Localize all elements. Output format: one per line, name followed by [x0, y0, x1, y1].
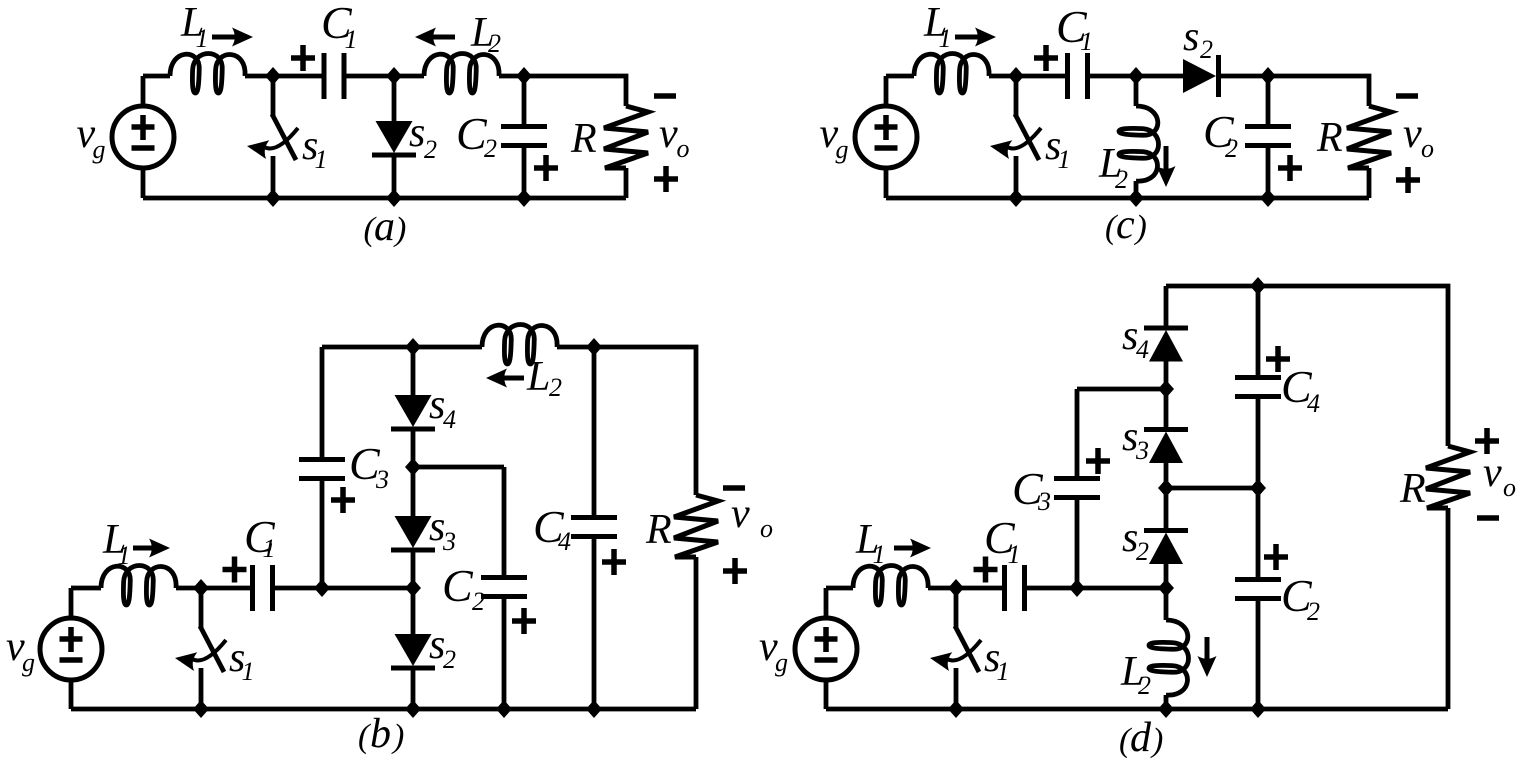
svg-text:L: L — [526, 354, 550, 400]
svg-text:): ) — [1150, 722, 1163, 759]
svg-text:1: 1 — [1008, 540, 1021, 569]
svg-text:2: 2 — [472, 587, 485, 616]
svg-text:4: 4 — [1136, 335, 1149, 364]
svg-text:2: 2 — [484, 134, 497, 163]
svg-text:g: g — [93, 135, 106, 164]
svg-text:1: 1 — [1080, 27, 1093, 56]
svg-text:): ) — [393, 211, 406, 248]
svg-text:o: o — [677, 134, 690, 163]
svg-text:g: g — [775, 648, 788, 677]
svg-text:o: o — [760, 514, 773, 543]
svg-text:1: 1 — [196, 24, 209, 53]
svg-text:C: C — [442, 560, 474, 611]
svg-text:1: 1 — [315, 145, 328, 174]
svg-text:a: a — [374, 204, 395, 250]
svg-text:v: v — [1483, 450, 1502, 496]
svg-text:g: g — [836, 135, 849, 164]
svg-text:1: 1 — [345, 25, 358, 54]
svg-text:3: 3 — [375, 465, 389, 494]
svg-text:1: 1 — [118, 541, 131, 570]
svg-text:c: c — [1116, 202, 1135, 248]
svg-text:2: 2 — [443, 645, 456, 674]
svg-text:2: 2 — [1138, 671, 1151, 700]
svg-text:4: 4 — [1307, 389, 1320, 418]
svg-text:v: v — [659, 111, 678, 157]
svg-text:1: 1 — [873, 540, 886, 569]
svg-text:R: R — [570, 116, 597, 162]
svg-text:1: 1 — [242, 657, 255, 686]
svg-text:1: 1 — [939, 24, 952, 53]
svg-text:): ) — [391, 718, 404, 755]
svg-text:4: 4 — [558, 527, 571, 556]
svg-text:d: d — [1130, 715, 1152, 761]
svg-text:1: 1 — [263, 534, 276, 563]
svg-text:o: o — [1503, 473, 1516, 502]
svg-text:): ) — [1134, 209, 1147, 246]
svg-text:g: g — [22, 648, 35, 677]
svg-text:R: R — [1316, 115, 1343, 161]
svg-text:o: o — [1421, 134, 1434, 163]
svg-text:2: 2 — [1115, 165, 1128, 194]
svg-text:s: s — [409, 110, 425, 156]
svg-text:1: 1 — [997, 657, 1010, 686]
svg-text:R: R — [645, 507, 672, 553]
svg-text:3: 3 — [1135, 436, 1149, 465]
svg-text:2: 2 — [1200, 35, 1213, 64]
svg-text:2: 2 — [424, 135, 437, 164]
svg-text:b: b — [370, 711, 391, 757]
svg-text:1: 1 — [1058, 145, 1071, 174]
svg-text:R: R — [1399, 466, 1426, 512]
svg-text:2: 2 — [1307, 597, 1320, 626]
svg-text:s: s — [1183, 14, 1199, 60]
svg-text:2: 2 — [549, 373, 562, 402]
svg-text:3: 3 — [1037, 487, 1051, 516]
svg-text:3: 3 — [442, 527, 456, 556]
svg-text:2: 2 — [1136, 537, 1149, 566]
svg-text:2: 2 — [1225, 134, 1238, 163]
svg-text:v: v — [731, 491, 750, 537]
svg-text:v: v — [1403, 111, 1422, 157]
svg-text:4: 4 — [443, 405, 456, 434]
svg-text:2: 2 — [488, 29, 501, 58]
